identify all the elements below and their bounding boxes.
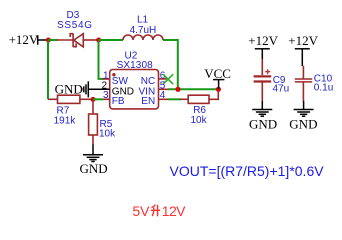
wire EN segment	[168, 98, 181, 100]
svg-text:FB: FB	[112, 96, 125, 107]
no-ERC marker X on pin 6	[163, 74, 173, 84]
svg-text:GND: GND	[249, 117, 277, 132]
resistor R7 191k	[48, 95, 93, 126]
svg-text:0.1u: 0.1u	[314, 82, 333, 93]
svg-text:191k: 191k	[54, 115, 77, 126]
power port +12V for C9	[248, 33, 278, 59]
ground GND below C10	[289, 101, 317, 132]
resistor R6 10k	[180, 91, 218, 127]
pin 6 NC	[141, 70, 167, 87]
wire node B down to SW pin1	[99, 41, 104, 79]
svg-text:L1: L1	[137, 15, 149, 26]
svg-text:10k: 10k	[191, 115, 208, 126]
wire L1 to VIN corner	[163, 40, 178, 88]
ground GND below R5	[80, 145, 108, 177]
capacitor C9 47u	[254, 59, 290, 101]
wire node B to L1	[99, 39, 123, 41]
wire node E to FB	[93, 98, 103, 100]
svg-text:+12V: +12V	[9, 32, 39, 47]
svg-text:GND: GND	[289, 117, 317, 132]
node E junction R7/R5/FB	[91, 97, 96, 102]
inductor L1 4.7uH	[123, 15, 163, 41]
pin 1 SW	[103, 70, 129, 87]
wire +12V to D3	[48, 39, 57, 41]
svg-text:GND: GND	[80, 161, 108, 176]
ground GND below C9	[249, 101, 277, 132]
svg-text:VCC: VCC	[204, 66, 231, 81]
svg-text:+12V: +12V	[288, 33, 318, 48]
svg-text:47u: 47u	[273, 84, 290, 95]
svg-text:5V: 5V	[132, 203, 150, 219]
svg-text:12V: 12V	[162, 203, 186, 219]
ground signal GND at pin 2	[55, 81, 110, 97]
capacitor C10 0.1u	[295, 66, 333, 102]
resistor R5 10k	[89, 100, 117, 145]
svg-text:SS54G: SS54G	[57, 20, 93, 31]
op-amp U2 SX1308 body	[110, 51, 159, 109]
svg-text:EN: EN	[141, 96, 155, 107]
svg-text:10k: 10k	[99, 129, 116, 140]
pin 4 EN	[141, 90, 168, 107]
title 5V to 12V (red)	[132, 203, 186, 219]
node C junction L1/VIN	[175, 87, 180, 92]
svg-text:4: 4	[160, 90, 166, 101]
pin 2 GND	[102, 81, 135, 98]
diode D3 SS54G	[57, 10, 99, 47]
node A junction +12V/R7	[46, 38, 51, 43]
power port +12V left	[9, 32, 49, 47]
pin 3 FB	[103, 90, 125, 107]
pin 5 VIN	[139, 81, 168, 98]
svg-text:3: 3	[103, 90, 109, 101]
node D junction VCC/R6	[216, 87, 221, 92]
svg-text:VOUT=[(R7/R5)+1]*0.6V: VOUT=[(R7/R5)+1]*0.6V	[170, 163, 325, 179]
power port VCC	[204, 66, 231, 89]
node B junction D3/L1/SW	[96, 38, 101, 43]
svg-text:4.7uH: 4.7uH	[130, 25, 157, 36]
power port +12V for C10	[288, 33, 318, 66]
wire VIN line	[168, 88, 218, 90]
svg-text:+12V: +12V	[248, 33, 278, 48]
wire +12V down to R7	[47, 41, 49, 99]
svg-text:GND: GND	[55, 81, 83, 96]
note VOUT formula	[170, 163, 325, 179]
